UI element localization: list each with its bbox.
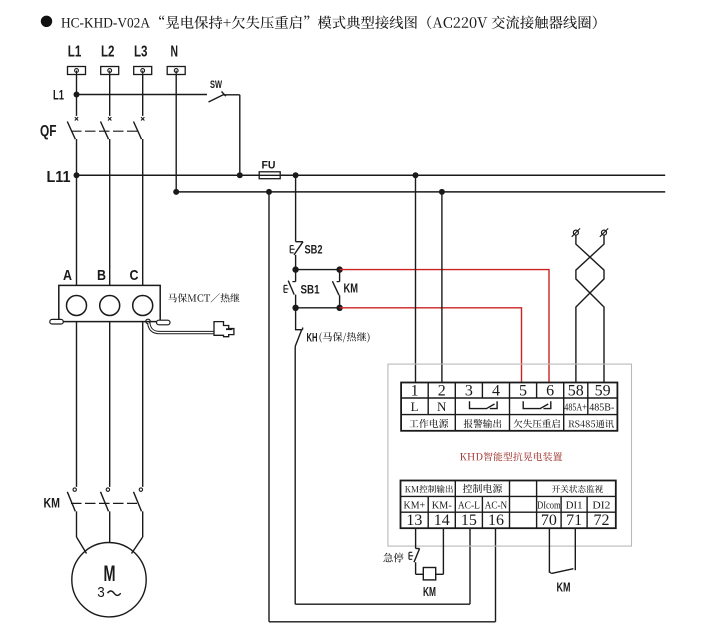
svg-text:DI2: DI2 [592,500,610,512]
device outline box (gray) [388,364,632,546]
wire KH down-left rail [294,346,296,604]
svg-text:N: N [170,44,178,61]
current transformer MCT box [59,267,160,322]
svg-text:KM-: KM- [432,500,452,512]
svg-text:L3: L3 [134,44,148,61]
label undervoltage restart [514,419,560,428]
title text HC-KHD-V02A mode wiring diagram [61,14,597,31]
svg-text:3: 3 [97,584,105,601]
wire node B to KH [295,308,297,330]
bus N [176,191,665,193]
wire node B horizontal [296,307,340,309]
wire L3 terminal to QF [142,75,144,116]
svg-text:14: 14 [434,512,450,529]
MCT cable exit [146,319,150,323]
svg-text:1: 1 [411,383,419,400]
wire N terminal to N bus [175,75,177,192]
svg-text:L1: L1 [53,87,64,103]
node N loop branch [266,189,272,195]
label control power [463,484,502,493]
fuse FU [259,159,280,178]
RS485 twisted pair wire A to terminal 58 [576,235,604,382]
svg-text:HC-KHD-V02A: HC-KHD-V02A [61,14,150,31]
emergency stop button (NC) [409,549,420,563]
wire terminal 71 down [574,528,576,570]
MCT cable [149,323,214,332]
svg-text:AC-L: AC-L [458,500,480,512]
svg-text:SB1: SB1 [301,283,320,297]
MCT left mounting foot [50,319,64,324]
svg-text:N: N [437,399,447,414]
thermal contact KH (NC) [295,328,370,347]
terminal L1 [68,44,86,75]
svg-text:QF: QF [40,123,57,140]
terminal L2 [101,44,119,75]
svg-text:AC-N: AC-N [485,500,508,512]
contact KM aux (NO, parallel with SB1) [332,270,358,296]
svg-text:KM: KM [423,584,436,599]
label MCT [168,293,240,302]
svg-text:70: 70 [541,512,557,529]
svg-text:KM: KM [44,495,61,510]
title bullet [41,16,52,27]
node SB2 branch on L11 [293,172,299,178]
node A left [292,266,298,272]
bus L11 [77,174,666,176]
wire QF pole3 down [142,139,144,285]
svg-text:4: 4 [492,383,500,400]
label alarm output [464,419,502,428]
svg-text:A: A [63,267,72,284]
MCT cable connector plug [214,322,234,337]
RS485 twisted pair wire B to terminal 59 [576,235,604,382]
circuit breaker QF [40,117,144,140]
wire L2 terminal to QF [109,75,111,116]
wire SW to L11 bus [224,95,240,176]
svg-text:13: 13 [406,512,422,529]
svg-text:KM: KM [557,579,571,594]
svg-text:DIcom: DIcom [537,500,561,512]
node L11 [47,169,80,186]
wire SB2 to node A [295,255,297,270]
motor M 3-phase [72,543,146,617]
svg-text:SB2: SB2 [305,242,323,256]
svg-text:16: 16 [488,512,504,529]
wires contactor to motor [77,511,143,553]
svg-text:59: 59 [595,383,611,400]
wire L11 to terminal 1 [415,175,417,382]
svg-text:15: 15 [461,512,477,529]
terminal L3 [134,44,152,75]
node N terminal drop [173,189,179,195]
wire L1 to SW [77,94,208,96]
RS485 twisted pair terminals [572,228,609,236]
svg-text:L2: L2 [101,44,115,61]
wire SB1 to node B [295,295,297,308]
svg-text:DI1: DI1 [566,500,583,512]
label working power [409,419,448,428]
wire bottom rail to AC-L [295,528,470,604]
svg-text:KM+: KM+ [404,500,426,512]
wire terminal 13 down [415,528,417,549]
node L1 tap [53,87,80,103]
svg-text:58: 58 [568,383,584,400]
wire terminal 70 down [548,528,550,573]
device terminal strip top (1 2 3 4 5 6 58 59) [401,383,617,431]
svg-text:KH: KH [307,330,318,344]
wire N loop rail [269,192,496,622]
red wire node B to terminal 5 [340,308,522,383]
label emergency stop [383,553,403,563]
svg-text:72: 72 [593,512,609,529]
node A right [336,266,342,272]
wire L1 terminal to QF [76,75,78,116]
wire node A to KM branch [296,269,340,271]
red wire node A to terminal 6 [340,270,549,383]
node terminal1 branch on L11 [413,172,419,178]
node B right [336,305,342,311]
svg-text:M: M [104,561,116,586]
node B left [292,305,298,311]
svg-text:6: 6 [546,383,554,400]
label KHD device name [460,452,562,461]
switch SW [209,79,226,102]
svg-text:KM: KM [344,281,359,296]
wire L11 to SB2 [295,175,297,241]
terminal N [167,44,185,75]
svg-text:3: 3 [465,383,473,400]
svg-text:485A+: 485A+ [564,402,587,413]
contact KM feedback (NO) [549,569,573,595]
wire coil to terminal 14 [436,528,444,574]
wire e-stop to coil [416,562,424,574]
svg-text:71: 71 [566,512,582,529]
label KM control output [405,485,453,493]
wire N to terminal 2 [441,192,443,383]
node terminal2 branch on N [439,189,445,195]
label RS485 comm [568,420,613,428]
MCT right mounting foot [157,320,171,325]
wire QF pole1 down [76,139,78,285]
svg-text:2: 2 [438,383,446,400]
node SW drop on L11 [237,172,243,178]
wire KM aux to node B right [339,295,341,308]
svg-text:L1: L1 [68,44,82,61]
device terminal strip bottom (13 14 15 16 70 71 72) [401,481,616,530]
contactor KM main contacts [44,322,143,512]
svg-text:FU: FU [262,159,276,171]
svg-text:SW: SW [210,79,222,91]
svg-text:L11: L11 [47,169,71,186]
svg-text:5: 5 [519,383,527,400]
label switch state monitor [552,485,603,493]
svg-text:B: B [97,267,106,284]
wire QF pole2 down [109,139,111,285]
pushbutton SB1 (NO) [284,270,320,297]
coil KM [423,568,436,600]
svg-text:C: C [130,267,139,284]
svg-text:485B-: 485B- [589,402,614,413]
svg-text:L: L [411,399,419,414]
pushbutton SB2 (NC) [290,242,323,257]
